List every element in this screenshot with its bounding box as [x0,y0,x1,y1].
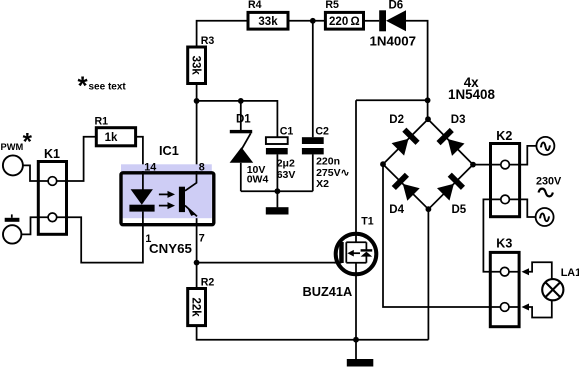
node top rail junction [310,18,316,24]
K3 pin 1 terminal [500,267,509,276]
resistor R5 [325,12,363,29]
wire C2 top column [312,21,314,137]
svg-text:R4: R4 [248,0,262,11]
node bridge right corner [470,162,476,168]
IC1 highlight [121,164,212,218]
arrow into K3 pin 2 [522,300,552,317]
K1 pin 1 wire [38,180,66,182]
svg-text:∿: ∿ [538,137,552,155]
optocoupler IC1 body [121,173,214,225]
connector K1 [38,162,66,235]
node bridge left corner [380,161,386,167]
svg-text:PWM: PWM [1,142,24,152]
diode D2 [392,128,420,156]
wire R2 bottom to source rail [197,326,429,340]
svg-text:220 Ω: 220 Ω [329,16,360,28]
diode D5 [437,173,465,201]
wire IC1 pin 7 column [196,216,198,262]
connector K3 [490,252,519,326]
svg-text:K2: K2 [496,129,512,143]
node bridge bottom corner [426,206,432,212]
K2 pin 1 terminal [501,160,510,169]
wire drain row [356,99,428,101]
wire bridge left to K3 pin 2 [383,164,500,307]
svg-text:1k: 1k [105,132,118,144]
AC source upper [536,137,554,156]
K2 pin 2 terminal [501,195,510,204]
resistor R2 [188,289,206,326]
ground (supply) [266,207,289,214]
svg-text:D3: D3 [451,114,466,126]
PWM input terminal [3,155,23,175]
svg-text:K1: K1 [44,147,60,161]
wire C2 bottom lead [312,154,314,191]
svg-text:R1: R1 [95,115,109,127]
connector K2 [491,144,520,217]
arrow into K3 pin 1 [522,262,552,279]
svg-text:R2: R2 [201,276,215,288]
svg-text:8: 8 [199,161,205,173]
svg-text:∿: ∿ [538,209,552,227]
svg-text:1N5408: 1N5408 [448,87,495,102]
wire R2 top lead [196,263,198,289]
AC source lower [536,208,554,227]
IC1 LED anode lead [142,171,144,190]
wire R5 to D6 [364,20,380,22]
svg-text:*: * [23,129,33,156]
diode D4 [392,173,420,201]
ground input terminal [3,225,21,243]
node gate junction [194,260,200,266]
wire drain column [355,100,357,234]
K2 pin 1 wire [491,164,520,166]
svg-text:*: * [78,71,89,101]
svg-text:7: 7 [199,233,205,245]
wire bridge diamond [383,119,473,209]
capacitor C2 [302,137,324,154]
230V AC tilde [539,189,553,197]
svg-text:220n: 220n [316,155,340,167]
resistor R1 [96,128,135,146]
wire K1 pin1 to R1 [57,137,97,181]
wire ground stem [276,191,278,207]
lamp LA1 [542,279,563,300]
svg-text:D6: D6 [389,0,404,11]
wire K2 pin1 to mains upper [509,146,537,165]
wire K2 pin2 to K3 pin1 [483,199,500,271]
wire K2 pin2 to mains lower [509,199,536,217]
diode D6 [379,10,406,31]
svg-text:LA1: LA1 [561,267,579,279]
resistor R3 [188,47,206,84]
wire R1 to IC1 pin 14 [136,137,143,171]
svg-text:230V: 230V [536,176,562,188]
svg-text:X2: X2 [316,178,329,190]
svg-text:D1: D1 [236,113,251,125]
svg-text:BUZ41A: BUZ41A [303,284,353,299]
wire gate row [197,262,340,264]
svg-text:22k: 22k [190,298,202,318]
svg-text:see text: see text [89,81,127,92]
zener diode D1 [230,130,254,163]
node drain tap [425,97,431,103]
wire D1 bottom lead [240,163,242,191]
wire source column [355,274,357,340]
IC1 phototransistor [179,171,197,216]
wire bridge right to K2 pin 1 [473,164,500,166]
svg-text:CNY65: CNY65 [149,241,192,256]
node D1 tap [238,98,244,104]
svg-text:R5: R5 [325,0,339,11]
svg-text:C1: C1 [280,126,294,138]
wire R4 to R5 [288,20,325,22]
K2 pin 2 wire [491,198,520,200]
svg-text:T1: T1 [361,216,373,228]
wire D6 to bridge top [406,21,428,119]
IC1 light arrow lower [159,202,175,209]
svg-text:IC1: IC1 [159,144,179,158]
resistor R4 [248,12,288,29]
svg-text:1: 1 [145,233,151,245]
svg-text:D2: D2 [389,114,404,126]
K1 pin 2 terminal [48,213,57,222]
wire bridge bottom column [427,209,429,340]
wire ground stem (power) [355,340,357,360]
svg-text:2μ2: 2μ2 [277,157,295,169]
node ground junction [275,188,281,194]
K1 pin 2 wire [38,216,66,218]
wire C1 bottom lead [276,154,278,191]
wire K1 pin2 to IC1 pin 1 [57,217,143,262]
node source junction [353,337,359,343]
svg-text:K3: K3 [496,237,512,251]
node bridge top corner [425,116,431,122]
ground (power) [347,359,374,367]
K3 pin 1 wire [490,271,519,273]
svg-text:D5: D5 [452,204,467,216]
svg-text:0W4: 0W4 [247,173,269,185]
svg-text:33k: 33k [190,56,202,76]
svg-text:14: 14 [144,161,156,173]
wire R3 top to R4 [197,21,248,47]
diode D3 [437,128,465,156]
ground symbol (input) [5,214,20,221]
capacitor C1 [266,137,288,154]
wire R3 bottom to IC1 pin 8 [196,84,198,172]
svg-text:C2: C2 [315,126,329,138]
IC1 LED [129,189,154,211]
K3 pin 2 wire [490,306,519,308]
svg-text:D4: D4 [389,204,404,216]
IC1 LED cathode lead [142,212,144,227]
svg-text:1N4007: 1N4007 [370,33,417,48]
wire ground rail D1-C1-C2 [241,190,313,192]
svg-text:63V: 63V [277,169,296,181]
wire PWM to K1 [23,165,48,181]
svg-text:33k: 33k [258,16,278,28]
wire D1 top lead [240,101,242,131]
wire supply row to C1 [197,101,278,137]
K3 pin 2 terminal [500,303,509,312]
wire ground terminal to K1 [21,217,48,234]
node R3 bottom junction [194,98,200,104]
transistor T1 (MOSFET) [334,234,376,275]
IC1 light arrow upper [159,191,175,198]
K1 pin 1 terminal [48,177,57,186]
svg-text:R3: R3 [201,35,215,47]
